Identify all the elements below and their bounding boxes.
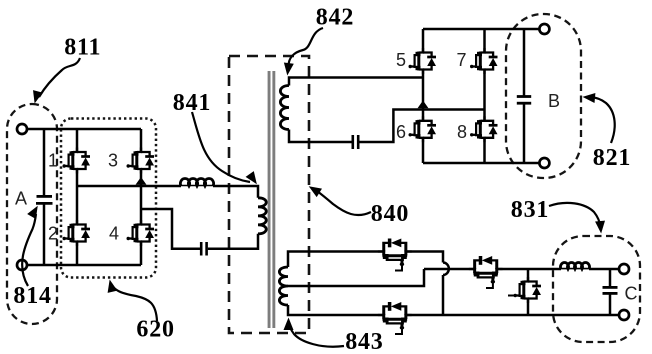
gate lead of top-tap switch: [395, 265, 402, 271]
transformer core bar 1: [268, 71, 271, 328]
pointer arrow 842: [288, 28, 323, 67]
transformer core bar 2: [272, 71, 275, 328]
dashed enclosure 831 (output C port): [553, 236, 640, 342]
terminal: output B positive: [539, 24, 549, 34]
svg-text:B: B: [548, 91, 560, 111]
pointer arrow 620: [112, 286, 157, 321]
wire: secondary 843 top tap lead: [288, 252, 443, 316]
terminal: output C negative: [619, 310, 629, 320]
svg-text:7: 7: [456, 50, 466, 70]
pointer arrow 841: [192, 112, 250, 182]
capacitor B (output filter): [517, 29, 531, 163]
junction arrow on right leg at mid-rail crossing: [136, 177, 147, 185]
transistor 2: [63, 220, 91, 246]
wire: bridge mid rail to resonant inductor: [77, 185, 181, 188]
transistor 8: [470, 116, 498, 142]
pointer arrow 814: [22, 214, 36, 286]
wire: rectifier right leg (switches 7-8): [483, 29, 486, 163]
wire: rectifier bottom rail to terminal B-: [423, 162, 540, 165]
dotted enclosure 620 (primary full-bridge): [61, 119, 156, 278]
gate lead of shunt freewheel switch: [508, 295, 515, 297]
dashed enclosure 840 (transformer): [229, 56, 309, 333]
dashed enclosure 821 (output B port): [506, 14, 581, 178]
wire: secondary 843 bottom lead / output bottom rail: [288, 305, 620, 315]
capacitor C (output filter): [603, 269, 618, 315]
svg-text:821: 821: [593, 145, 631, 171]
svg-text:843: 843: [345, 329, 383, 354]
svg-text:4: 4: [109, 224, 119, 244]
wire: shunt branch to bottom rail: [527, 269, 530, 315]
pointer arrow 811: [39, 58, 80, 97]
capacitor A (input bulk capacitor): [36, 129, 53, 265]
transistor: bottom-tap rectifier switch: [378, 302, 412, 330]
transformer secondary winding 843 (bottom): [279, 267, 288, 305]
junction arrow on left leg at mid-rail crossing: [418, 101, 429, 109]
svg-text:5: 5: [396, 50, 406, 70]
transistor 4: [127, 220, 155, 246]
svg-text:C: C: [625, 284, 638, 304]
wire: secondary 842 bottom lead to series capacitor: [289, 130, 352, 143]
svg-text:2: 2: [48, 224, 58, 244]
svg-text:841: 841: [173, 90, 211, 116]
wire: bridge right leg (switches 3-4): [140, 129, 143, 265]
terminal: output B negative: [539, 158, 549, 168]
svg-text:3: 3: [108, 151, 118, 171]
wire under output inductor loops: [561, 268, 589, 270]
svg-text:814: 814: [13, 283, 51, 309]
wire: rectifier top rail to terminal B+: [423, 28, 540, 31]
wire: secondary 843 centre tap lead: [288, 269, 424, 286]
transistor 5: [409, 48, 437, 74]
svg-text:8: 8: [457, 122, 467, 142]
wire: bridge left leg (switches 1-2): [76, 129, 79, 265]
transistor 3: [127, 148, 155, 174]
wire: right-leg midpoint tap down to series capacitor: [141, 209, 200, 249]
transistor 6: [409, 116, 437, 142]
dashed enclosure 811 (input A port): [7, 104, 57, 324]
svg-text:620: 620: [136, 317, 174, 343]
inductor: output filter inductor: [561, 262, 590, 269]
wire under series inductor loops: [181, 185, 213, 187]
transformer secondary winding 842 (top): [280, 86, 289, 130]
pointer arrow 843: [289, 324, 344, 347]
transistor: shunt freewheel switch: [514, 277, 542, 303]
transistor: series buck switch: [469, 256, 503, 284]
svg-text:A: A: [15, 189, 27, 209]
svg-text:840: 840: [371, 201, 409, 227]
capacitor: secondary series blocking capacitor: [353, 135, 358, 149]
wire: blocking capacitor to primary winding bottom: [208, 234, 258, 249]
pointer arrow 831: [549, 203, 601, 227]
transistor 7: [470, 48, 498, 74]
transistor: top-tap rectifier switch: [378, 239, 412, 267]
inductor: series resonant inductor: [180, 179, 213, 186]
svg-text:6: 6: [396, 122, 406, 142]
wire: centre tap to series switch: [424, 268, 561, 271]
transistor 1: [63, 148, 91, 174]
wire: centre-tap rail into filter inductor: [589, 268, 620, 271]
wire: inductor to primary winding top: [213, 186, 258, 198]
wire: rectifier left leg (switches 5-6): [422, 29, 425, 163]
terminal: input A positive: [17, 124, 27, 134]
gate lead of bottom-tap switch: [395, 329, 402, 335]
svg-text:1: 1: [48, 151, 58, 171]
capacitor: primary series blocking capacitor: [201, 242, 206, 256]
gate lead of series buck switch: [486, 283, 493, 289]
wire: input top rail from terminal A+ to bridge legs: [26, 128, 141, 131]
wire: input bottom rail from terminal A- to bridge legs: [26, 264, 141, 267]
svg-text:831: 831: [511, 197, 549, 223]
pointer arrow 821: [590, 97, 615, 143]
transformer primary winding 841: [258, 198, 266, 234]
wire: secondary 842 top lead to rectifier left leg: [289, 78, 423, 86]
pointer arrow 840: [317, 191, 371, 215]
terminal: input A negative: [17, 260, 27, 270]
wire: blocking capacitor up to rectifier right leg midpoint: [359, 110, 484, 143]
terminal: output C positive: [619, 264, 629, 274]
svg-text:811: 811: [64, 35, 101, 61]
svg-text:842: 842: [316, 5, 354, 31]
wire hop: top-tap return hops over centre-tap rail: [443, 263, 449, 276]
